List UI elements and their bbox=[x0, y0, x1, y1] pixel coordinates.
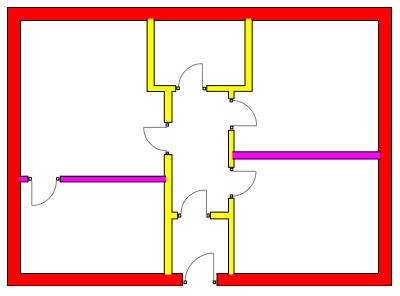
magenta wall M3 (right horizontal wall to right red wall) bbox=[233, 152, 380, 159]
door D3 swing arc bbox=[144, 127, 168, 150]
jamb nub n8 (top of W10) bbox=[230, 195, 232, 197]
jamb nub n5 (top of W4) bbox=[166, 152, 168, 154]
jamb nub n11 (right end of M1) bbox=[29, 178, 31, 181]
jamb nub n6 (top of W9) bbox=[231, 126, 233, 129]
jamb nub n3 (bottom of W8 stub) bbox=[230, 100, 233, 102]
door D2 leaf (hall to top-right room) bbox=[231, 125, 256, 127]
junction patch W4 into bottom red wall bbox=[165, 272, 171, 274]
magenta wall M2 (left horizontal wall to central wall) bbox=[60, 176, 165, 182]
door D5 swing arc bbox=[231, 171, 256, 196]
door D3 leaf (hall to left room) bbox=[144, 126, 168, 128]
jamb nub n13 (front door left jamb on red wall) bbox=[184, 281, 186, 284]
junction patch M3 into wall W9 bbox=[232, 152, 234, 158]
junction patch M3 into right red wall bbox=[378, 152, 380, 158]
jamb nub n12 (left end of M2) bbox=[57, 178, 59, 181]
junction patch M2 into wall W4 bbox=[164, 177, 166, 182]
jamb nub n14 (front door right jamb on red wall) bbox=[213, 281, 215, 284]
door D2 swing arc bbox=[231, 100, 256, 125]
door D4 swing arc bbox=[32, 181, 57, 206]
door D4 leaf (left magenta wall door) bbox=[31, 181, 33, 206]
door D5 leaf (hall to bottom-right room) bbox=[231, 170, 256, 172]
wall W6+W7+W8 (top-middle room right wall with bottom stub) bbox=[207, 20, 252, 99]
jamb nub n1 (end of W2 stub) bbox=[177, 87, 180, 90]
wall W1+W2+W3 (top-middle room left wall with stub and hanging tee) bbox=[147, 20, 176, 123]
junction patch W10 into bottom red wall bbox=[229, 272, 233, 274]
door D7 swing arc bbox=[185, 253, 214, 281]
door D1 leaf (top-middle room door) bbox=[201, 64, 203, 88]
jamb nub n9 (end of W5 stub) bbox=[179, 214, 181, 217]
door D6 leaf (hall to entry) bbox=[206, 190, 208, 213]
door D1 swing arc bbox=[179, 64, 203, 88]
door D6 swing arc bbox=[181, 190, 206, 213]
jamb nub n2 (left end of W7) bbox=[203, 87, 206, 90]
wall W10+W11 (right corridor wall lower segment with left stub) bbox=[210, 198, 234, 274]
jamb nub n10 (left end of W11 stub) bbox=[207, 214, 209, 217]
wall W9 (right corridor wall, upper segment) bbox=[229, 130, 235, 167]
jamb nub n7 (bottom of W9) bbox=[231, 168, 233, 170]
junction patch M1 into left red wall bbox=[19, 177, 22, 182]
wall W4+W5 (central vertical wall, lower segment with right stub) bbox=[164, 155, 177, 274]
junction patch W1 into top red wall bbox=[148, 19, 154, 22]
junction patch W6 into top red wall bbox=[246, 19, 252, 22]
door D7 leaf (front door in bottom red wall) bbox=[213, 253, 215, 281]
jamb nub n4 (bottom of W3) bbox=[166, 124, 168, 126]
magenta wall M1 (stub on left red wall) bbox=[20, 176, 28, 182]
